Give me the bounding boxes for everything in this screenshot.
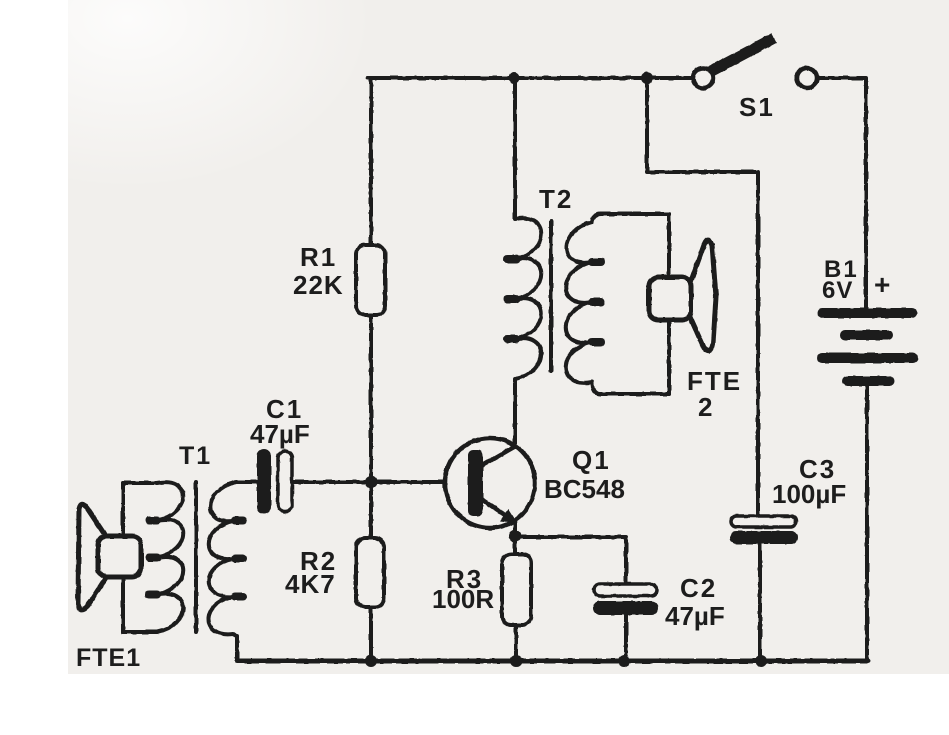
wire R2 bottom lead [369, 607, 373, 661]
svg-text:R1: R1 [300, 242, 337, 272]
wire R2 top lead [369, 482, 373, 538]
node C3 ground junction [755, 655, 767, 667]
svg-text:S1: S1 [739, 92, 775, 122]
svg-text:47µF: 47µF [665, 601, 725, 631]
svg-text:6V: 6V [822, 277, 853, 304]
wire top rail [368, 76, 693, 80]
battery B1 [817, 308, 918, 386]
T2 core [549, 221, 553, 371]
wire supply branch down [647, 78, 758, 516]
capacitor C2 plate + [594, 584, 657, 596]
node R2 ground junction [365, 655, 377, 667]
Q1 collector diagonal [481, 447, 514, 466]
wire emitter lead [513, 521, 517, 537]
transformer T2 primary winding [515, 78, 541, 446]
svg-text:Q1: Q1 [572, 445, 611, 475]
Q1 emitter diagonal [481, 499, 511, 519]
svg-text:100R: 100R [432, 584, 494, 614]
svg-text:2: 2 [698, 392, 712, 422]
capacitor C2 plate - [593, 601, 658, 615]
wire C2 bottom lead [624, 615, 628, 661]
node R3 ground junction [510, 655, 522, 667]
wire C1 to base junction [292, 480, 371, 484]
Q1 base bar [468, 450, 483, 516]
T1 core [194, 482, 198, 632]
wire FTE1 bottom lead [121, 577, 125, 632]
svg-text:FTE1: FTE1 [76, 644, 141, 672]
switch S1 [693, 38, 817, 88]
wire emitter to R3 [513, 536, 517, 554]
svg-text:BC548: BC548 [544, 474, 625, 504]
capacitor C1 plate - [257, 449, 271, 514]
svg-text:22K: 22K [293, 270, 344, 300]
svg-text:100µF: 100µF [772, 479, 846, 509]
svg-text:+: + [874, 269, 890, 300]
wire R1 bottom lead [369, 315, 373, 482]
svg-text:FTE: FTE [687, 366, 742, 396]
resistor R3 [502, 554, 531, 625]
T1 secondary cusp stubs [235, 521, 243, 597]
T1 primary cusp stubs [149, 521, 157, 595]
wire R3 bottom lead [514, 625, 518, 661]
wire battery bottom lead [864, 386, 867, 661]
svg-text:C2: C2 [680, 573, 717, 603]
wire bottom rail [237, 659, 868, 664]
wire emitter to C2 [517, 537, 626, 584]
transformer T2 secondary winding [566, 214, 669, 394]
transistor Q1 [445, 438, 535, 528]
svg-text:4K7: 4K7 [285, 569, 336, 599]
transformer T1 primary winding [123, 482, 183, 632]
speaker FTE2 [690, 240, 716, 351]
wire R1 top lead [369, 78, 373, 245]
capacitor C3 plate + [731, 516, 796, 527]
svg-text:T2: T2 [539, 184, 573, 214]
node base junction [365, 476, 377, 488]
transformer T1 secondary winding [208, 482, 258, 661]
wire FTE2 leads [667, 214, 671, 277]
resistor R1 [356, 245, 385, 315]
wire collector to T2 [513, 380, 517, 447]
node junction top T2 [509, 73, 520, 84]
wire S1 to battery [817, 78, 866, 309]
node C2 ground junction [618, 655, 630, 667]
svg-text:T1: T1 [179, 442, 212, 470]
T2 secondary cusp stubs [592, 262, 601, 342]
resistor R2 [356, 538, 384, 607]
Q1 emitter arrowhead [500, 509, 517, 523]
capacitor C1 plate + [278, 451, 292, 512]
node emitter junction [509, 530, 521, 542]
wire C3 bottom lead [758, 544, 762, 661]
wire C1 to T1 [236, 480, 257, 484]
node junction top supply [641, 72, 653, 84]
capacitor C3 plate - [730, 531, 798, 544]
T2 primary cusp stubs [507, 259, 516, 339]
wire base to Q1 [371, 480, 445, 484]
svg-text:47µF: 47µF [250, 419, 310, 449]
speaker FTE1 [78, 504, 107, 610]
wire FTE1 top lead [121, 483, 125, 536]
